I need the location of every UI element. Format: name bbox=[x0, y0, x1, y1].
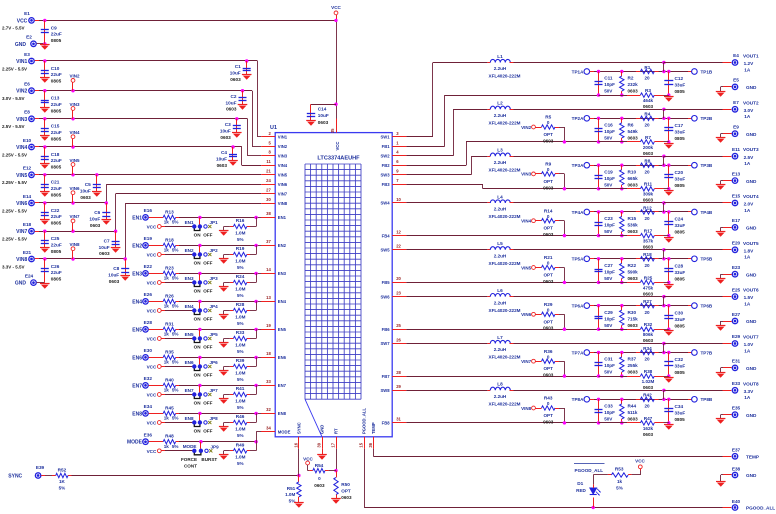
svg-text:R30: R30 bbox=[628, 310, 637, 315]
svg-text:RT: RT bbox=[334, 428, 339, 434]
svg-text:1k: 1k bbox=[164, 276, 170, 281]
svg-text:0603: 0603 bbox=[643, 385, 654, 390]
capacitor C9 22uF 0805 bbox=[40, 20, 62, 49]
svg-text:L2: L2 bbox=[497, 101, 503, 106]
svg-text:23: 23 bbox=[396, 290, 401, 295]
svg-text:OFF: OFF bbox=[203, 344, 212, 349]
svg-text:TP7A: TP7A bbox=[572, 350, 584, 355]
wire MODE line bbox=[149, 432, 262, 444]
svg-text:E17: E17 bbox=[732, 218, 741, 223]
svg-text:GND: GND bbox=[746, 132, 757, 137]
svg-text:5%: 5% bbox=[59, 486, 66, 491]
svg-text:1.0V: 1.0V bbox=[744, 342, 755, 347]
wire VOUT1 drop bbox=[663, 63, 665, 72]
resistor R9 0 OPT 0603 bbox=[535, 162, 566, 191]
svg-text:E1: E1 bbox=[24, 11, 30, 16]
svg-text:L6: L6 bbox=[497, 288, 503, 293]
wire EN1 line bbox=[149, 216, 262, 219]
svg-text:1k: 1k bbox=[164, 360, 170, 365]
test point TP2B bbox=[688, 116, 713, 122]
svg-text:R10: R10 bbox=[628, 169, 637, 174]
svg-text:E30: E30 bbox=[144, 348, 153, 353]
svg-text:TP4B: TP4B bbox=[701, 210, 713, 215]
svg-text:C23: C23 bbox=[604, 216, 613, 221]
net flag VCC for EN2 bbox=[147, 253, 193, 258]
svg-text:1.0M: 1.0M bbox=[235, 258, 245, 263]
resistor R52 1K 5% bbox=[56, 468, 68, 491]
svg-text:0603: 0603 bbox=[628, 89, 639, 94]
svg-text:C7: C7 bbox=[104, 238, 110, 243]
resistor R21 0 OPT 0603 bbox=[535, 255, 566, 284]
svg-text:1.0M: 1.0M bbox=[235, 455, 245, 460]
wire EN1 pulldown bbox=[224, 217, 257, 226]
resistor R12 20 bbox=[636, 205, 659, 221]
svg-text:VCC: VCC bbox=[331, 5, 341, 10]
svg-text:1.0M: 1.0M bbox=[235, 370, 245, 375]
svg-text:E26: E26 bbox=[144, 292, 153, 297]
svg-text:0603: 0603 bbox=[628, 136, 639, 141]
svg-text:0: 0 bbox=[547, 307, 550, 312]
svg-text:VIN2: VIN2 bbox=[278, 144, 288, 149]
jumper JP4 EN4 bbox=[185, 301, 219, 321]
svg-text:VCC: VCC bbox=[635, 458, 645, 463]
net flag VCC for EN5 bbox=[147, 337, 193, 342]
capacitor C25 22uF 0805 bbox=[40, 231, 62, 254]
svg-text:10uF: 10uF bbox=[226, 100, 237, 105]
svg-text:GND: GND bbox=[746, 272, 757, 277]
svg-text:VOUT8: VOUT8 bbox=[743, 381, 759, 386]
svg-text:20: 20 bbox=[644, 216, 650, 221]
capacitor C7 10uF 0603 bbox=[99, 231, 121, 256]
svg-text:1A: 1A bbox=[744, 114, 751, 119]
svg-text:VIN1: VIN1 bbox=[278, 135, 288, 140]
wire VOUT3 line bbox=[514, 155, 732, 158]
svg-text:VCC: VCC bbox=[147, 393, 157, 398]
svg-text:3.0V: 3.0V bbox=[744, 108, 755, 113]
net flag VIN2 on rail bbox=[69, 74, 80, 91]
svg-text:OFF: OFF bbox=[203, 232, 212, 237]
resistor R33 1.0M 5% bbox=[233, 330, 246, 354]
ground for R51 bbox=[294, 503, 304, 508]
test point TP7A bbox=[572, 350, 594, 356]
net label PGOOD_ALL with overline bbox=[574, 464, 605, 473]
net flag VIN3 channel 3 bbox=[521, 172, 535, 177]
svg-text:C4: C4 bbox=[221, 150, 227, 155]
pin 38 EN1 stub bbox=[262, 211, 276, 217]
svg-text:EN3: EN3 bbox=[185, 276, 194, 281]
svg-text:0805: 0805 bbox=[675, 277, 686, 282]
svg-text:PGOOD_ALL: PGOOD_ALL bbox=[575, 468, 604, 473]
wire VOUT5 drop bbox=[663, 250, 665, 259]
svg-text:1.02M: 1.02M bbox=[642, 379, 655, 384]
svg-text:TP3B: TP3B bbox=[701, 163, 713, 168]
svg-text:CONT: CONT bbox=[184, 463, 197, 468]
svg-text:20: 20 bbox=[644, 123, 650, 128]
svg-text:XFL4020-222M: XFL4020-222M bbox=[489, 74, 521, 79]
svg-text:0603: 0603 bbox=[217, 163, 228, 168]
svg-text:0603: 0603 bbox=[314, 483, 325, 488]
net flag VCC for EN3 bbox=[147, 281, 193, 286]
svg-text:2.2uH: 2.2uH bbox=[494, 300, 507, 305]
svg-text:0: 0 bbox=[547, 354, 550, 359]
svg-text:37: 37 bbox=[266, 239, 271, 244]
resistor R23 1k 5% bbox=[163, 265, 178, 280]
svg-text:536k: 536k bbox=[628, 223, 639, 228]
svg-text:TP5A: TP5A bbox=[572, 257, 584, 262]
svg-text:475k: 475k bbox=[643, 285, 654, 290]
svg-text:JP7: JP7 bbox=[210, 388, 219, 393]
net flag VIN8 on rail bbox=[69, 242, 80, 259]
svg-text:VCC: VCC bbox=[17, 18, 28, 24]
svg-text:10uF: 10uF bbox=[220, 128, 231, 133]
node E18 VIN7 input turret bbox=[2, 222, 39, 242]
test point TP7B bbox=[688, 350, 713, 356]
svg-text:0603: 0603 bbox=[80, 195, 91, 200]
wire EN4 line bbox=[149, 300, 262, 303]
svg-text:464k: 464k bbox=[643, 98, 654, 103]
svg-text:PGOOD_ALL: PGOOD_ALL bbox=[746, 506, 775, 511]
svg-text:10uF: 10uF bbox=[216, 157, 227, 162]
svg-text:0805: 0805 bbox=[675, 323, 686, 328]
svg-text:XFL4020-222M: XFL4020-222M bbox=[489, 261, 521, 266]
svg-text:E22: E22 bbox=[144, 264, 153, 269]
svg-text:27: 27 bbox=[266, 188, 271, 193]
svg-text:50V: 50V bbox=[604, 323, 613, 328]
wire VOUT6 line bbox=[514, 295, 732, 298]
resistor R16 1.0M 5% bbox=[233, 218, 246, 242]
capacitor C24 33uF 0805 bbox=[664, 212, 685, 243]
svg-text:590k: 590k bbox=[628, 270, 639, 275]
svg-text:EN3: EN3 bbox=[132, 271, 142, 277]
svg-text:EN2: EN2 bbox=[132, 243, 142, 249]
jumper JP1 EN1 bbox=[185, 217, 219, 237]
svg-text:E18: E18 bbox=[23, 222, 32, 227]
net flag VIN7 channel 7 bbox=[521, 359, 535, 364]
svg-text:GND: GND bbox=[746, 179, 757, 184]
svg-text:E5: E5 bbox=[733, 78, 739, 83]
svg-text:C24: C24 bbox=[675, 217, 684, 222]
svg-text:E3: E3 bbox=[24, 52, 30, 57]
svg-text:511k: 511k bbox=[628, 410, 638, 415]
svg-text:5%: 5% bbox=[172, 220, 179, 225]
resistor R11 309k 0603 bbox=[599, 182, 669, 203]
svg-text:TP6A: TP6A bbox=[572, 303, 584, 308]
svg-text:R28: R28 bbox=[236, 302, 245, 307]
capacitor C32 33uF 0805 bbox=[664, 353, 685, 383]
svg-text:VIN7: VIN7 bbox=[278, 191, 288, 196]
svg-text:C21: C21 bbox=[51, 180, 60, 185]
svg-text:E38: E38 bbox=[732, 466, 741, 471]
test point TP5A bbox=[572, 256, 594, 262]
resistor R30 715k 0603 bbox=[620, 306, 639, 331]
svg-text:EN2: EN2 bbox=[278, 243, 287, 248]
svg-text:19: 19 bbox=[266, 323, 271, 328]
svg-text:R52: R52 bbox=[58, 468, 67, 473]
svg-text:OPT: OPT bbox=[341, 489, 351, 494]
svg-text:VIN5: VIN5 bbox=[278, 173, 288, 178]
pin 14 EN3 stub bbox=[262, 267, 276, 273]
resistor R22 590k 0603 bbox=[620, 259, 639, 284]
svg-text:0603: 0603 bbox=[628, 182, 639, 187]
wire divider mid line ch4 bbox=[594, 210, 691, 213]
svg-text:E8: E8 bbox=[24, 110, 30, 115]
U1 bottom pin stubs and names bbox=[294, 408, 376, 449]
svg-text:1.0M: 1.0M bbox=[235, 342, 245, 347]
net flag VIN6 on rail bbox=[69, 186, 80, 203]
svg-text:OFF: OFF bbox=[203, 316, 212, 321]
svg-text:C29: C29 bbox=[604, 310, 613, 315]
svg-text:VIN3: VIN3 bbox=[16, 117, 27, 123]
net flag VCC for EN7 bbox=[147, 393, 193, 398]
svg-text:E16: E16 bbox=[144, 208, 153, 213]
svg-text:SW8: SW8 bbox=[381, 388, 391, 393]
svg-text:5%: 5% bbox=[237, 265, 244, 270]
svg-text:VIN8: VIN8 bbox=[278, 201, 288, 206]
svg-text:R18: R18 bbox=[165, 237, 174, 242]
resistor R29 0 OPT 0603 bbox=[535, 302, 566, 331]
svg-text:38: 38 bbox=[266, 211, 271, 216]
node E10 VIN4 input turret bbox=[2, 138, 39, 158]
svg-text:L7: L7 bbox=[497, 335, 503, 340]
wire TEMP line bbox=[373, 449, 731, 457]
svg-text:R8: R8 bbox=[644, 159, 650, 164]
svg-text:R16: R16 bbox=[236, 218, 245, 223]
svg-text:BURST: BURST bbox=[201, 457, 217, 462]
svg-text:SW3: SW3 bbox=[381, 173, 391, 178]
svg-text:0603: 0603 bbox=[628, 276, 639, 281]
svg-text:5%: 5% bbox=[237, 237, 244, 242]
svg-text:2.2uH: 2.2uH bbox=[494, 347, 507, 352]
node E36 MODE turret bbox=[127, 432, 152, 445]
svg-text:20: 20 bbox=[644, 310, 650, 315]
svg-text:SW4: SW4 bbox=[381, 201, 391, 206]
svg-text:0805: 0805 bbox=[51, 79, 62, 84]
svg-text:EN6: EN6 bbox=[185, 360, 194, 365]
ground for JP4 bbox=[219, 311, 229, 320]
svg-text:E29: E29 bbox=[732, 334, 741, 339]
jumper JP2 EN2 bbox=[185, 245, 219, 265]
svg-text:VIN3: VIN3 bbox=[278, 154, 288, 159]
svg-text:5%: 5% bbox=[237, 349, 244, 354]
svg-text:D1: D1 bbox=[577, 481, 583, 486]
svg-text:10pF: 10pF bbox=[604, 223, 615, 228]
svg-text:VIN4: VIN4 bbox=[69, 130, 80, 135]
svg-text:C13: C13 bbox=[51, 96, 60, 101]
svg-text:E9: E9 bbox=[733, 125, 739, 130]
svg-text:0805: 0805 bbox=[675, 230, 686, 235]
svg-text:VOUT1: VOUT1 bbox=[743, 54, 759, 59]
svg-text:0805: 0805 bbox=[675, 89, 686, 94]
svg-text:R4: R4 bbox=[644, 112, 650, 117]
svg-text:10uF: 10uF bbox=[108, 273, 119, 278]
svg-text:2.7V - 5.5V: 2.7V - 5.5V bbox=[2, 26, 25, 31]
wire EN5 line bbox=[149, 328, 262, 331]
ground for JP5 bbox=[219, 339, 229, 348]
node E4 VOUT1 turret bbox=[732, 53, 759, 72]
pin 19 EN5 stub bbox=[262, 323, 276, 329]
wire MODE pulldown bbox=[224, 442, 257, 451]
svg-text:C25: C25 bbox=[51, 236, 60, 241]
svg-text:C12: C12 bbox=[675, 76, 684, 81]
svg-text:0603: 0603 bbox=[643, 151, 654, 156]
svg-text:31: 31 bbox=[396, 417, 401, 422]
svg-text:E35: E35 bbox=[732, 406, 741, 411]
svg-text:24: 24 bbox=[266, 178, 271, 183]
wire VOUT5 line bbox=[514, 248, 732, 251]
svg-text:E40: E40 bbox=[732, 499, 741, 504]
wire SW3 to L3 bbox=[406, 156, 487, 175]
svg-text:EN4: EN4 bbox=[132, 299, 142, 305]
inductor L3 2.2uH XFL4020-222M bbox=[487, 148, 520, 173]
svg-text:VIN8: VIN8 bbox=[521, 406, 532, 411]
svg-text:E25: E25 bbox=[732, 287, 741, 292]
wire FB4 line bbox=[406, 235, 598, 237]
ground for U1 GND pin bbox=[317, 449, 327, 460]
resistor R38 1.02M 0603 bbox=[599, 369, 669, 390]
svg-text:R25: R25 bbox=[644, 275, 653, 280]
resistor R44 511k 0603 bbox=[620, 399, 639, 424]
test point TP6B bbox=[688, 303, 713, 309]
svg-text:TP8A: TP8A bbox=[572, 397, 584, 402]
svg-text:R54: R54 bbox=[315, 463, 324, 468]
svg-text:EN1: EN1 bbox=[132, 215, 142, 221]
wire SW6 to L6 bbox=[406, 296, 487, 298]
svg-text:VIN3: VIN3 bbox=[69, 102, 80, 107]
svg-text:VIN6: VIN6 bbox=[16, 201, 27, 207]
svg-text:EN1: EN1 bbox=[278, 215, 287, 220]
svg-text:33uF: 33uF bbox=[675, 317, 686, 322]
svg-text:22uF: 22uF bbox=[51, 158, 62, 163]
svg-text:33uF: 33uF bbox=[675, 130, 686, 135]
svg-text:1.5V: 1.5V bbox=[744, 295, 755, 300]
node E19 EN2 turret bbox=[132, 236, 152, 249]
svg-text:EN7: EN7 bbox=[185, 388, 194, 393]
svg-text:E28: E28 bbox=[144, 320, 153, 325]
svg-text:EN4: EN4 bbox=[278, 299, 287, 304]
wire SW2 to L2 bbox=[406, 109, 487, 156]
wire divider mid line ch1 bbox=[594, 70, 691, 73]
resistor R32 806k 0603 bbox=[599, 322, 669, 343]
net flag VCC for EN6 bbox=[147, 365, 193, 370]
node E22 EN3 turret bbox=[132, 264, 152, 277]
svg-text:SYNC: SYNC bbox=[297, 422, 302, 434]
wire VCC rail bbox=[39, 19, 336, 22]
svg-text:ON: ON bbox=[194, 288, 202, 293]
wire D1 anode to R53 bbox=[593, 469, 640, 475]
svg-text:GND: GND bbox=[746, 413, 757, 418]
wire VOUT8 drop bbox=[663, 390, 665, 399]
svg-text:VIN6: VIN6 bbox=[278, 182, 288, 187]
svg-text:5%: 5% bbox=[172, 416, 179, 421]
svg-text:0805: 0805 bbox=[51, 192, 62, 197]
svg-text:EN5: EN5 bbox=[278, 327, 287, 332]
svg-text:0805: 0805 bbox=[51, 108, 62, 113]
svg-text:VOUT2: VOUT2 bbox=[743, 100, 759, 105]
svg-text:VIN8: VIN8 bbox=[69, 242, 80, 247]
svg-text:39: 39 bbox=[317, 442, 322, 447]
svg-text:VIN5: VIN5 bbox=[69, 158, 80, 163]
svg-text:R32: R32 bbox=[644, 322, 653, 327]
test point TP5B bbox=[688, 256, 713, 262]
svg-text:0805: 0805 bbox=[51, 221, 62, 226]
node E32 EN7 turret bbox=[132, 376, 152, 389]
node E35 GND turret ch8 bbox=[716, 406, 757, 424]
svg-text:L4: L4 bbox=[497, 194, 503, 199]
svg-text:E2: E2 bbox=[26, 35, 32, 40]
svg-text:SW1: SW1 bbox=[381, 135, 391, 140]
node E30 EN6 turret bbox=[132, 348, 152, 361]
svg-text:R13: R13 bbox=[165, 209, 174, 214]
svg-text:FB2: FB2 bbox=[382, 163, 391, 168]
svg-text:FB1: FB1 bbox=[382, 144, 391, 149]
node E34 EN8 turret bbox=[132, 404, 152, 417]
svg-text:E37: E37 bbox=[732, 448, 741, 453]
svg-text:SW5: SW5 bbox=[381, 248, 391, 253]
svg-text:OPT: OPT bbox=[543, 273, 553, 278]
wire SW1 to L1 bbox=[406, 63, 487, 138]
svg-text:50V: 50V bbox=[604, 136, 613, 141]
ground for JP8 bbox=[219, 423, 229, 432]
svg-text:LTC3374AEUHF: LTC3374AEUHF bbox=[317, 155, 360, 161]
resistor R15 536k 0603 bbox=[620, 212, 639, 237]
svg-text:R45: R45 bbox=[165, 405, 174, 410]
capacitor C23 10pF 50V bbox=[595, 212, 616, 237]
svg-text:3.3V - 5.5V: 3.3V - 5.5V bbox=[2, 264, 25, 269]
test point TP8A bbox=[572, 397, 594, 403]
capacitor C4 10uF 0603 bbox=[216, 147, 238, 168]
svg-text:FB7: FB7 bbox=[382, 374, 391, 379]
svg-text:VIN2: VIN2 bbox=[521, 125, 532, 130]
svg-text:E11: E11 bbox=[732, 147, 740, 152]
test point TP2A bbox=[572, 116, 594, 122]
ground for JP9 bbox=[219, 451, 229, 460]
node E37 TEMP turret bbox=[732, 448, 759, 460]
svg-text:L3: L3 bbox=[497, 148, 503, 153]
inductor L8 2.2uH XFL4020-222M bbox=[487, 382, 520, 407]
svg-text:EN7: EN7 bbox=[132, 383, 142, 389]
svg-text:C20: C20 bbox=[675, 170, 684, 175]
resistor R31 1k 5% bbox=[163, 321, 178, 336]
svg-text:ON: ON bbox=[194, 232, 202, 237]
node E11 VOUT3 turret bbox=[732, 147, 759, 166]
svg-text:1A: 1A bbox=[744, 208, 751, 213]
wire VIN8 rail bbox=[39, 203, 261, 260]
svg-text:E4: E4 bbox=[733, 53, 739, 58]
svg-text:OFF: OFF bbox=[203, 400, 212, 405]
resistor R14 0 OPT 0603 bbox=[535, 208, 566, 237]
net flag VCC for MODE bbox=[147, 449, 193, 454]
svg-text:R43: R43 bbox=[544, 396, 553, 401]
svg-text:0603: 0603 bbox=[543, 185, 554, 190]
svg-text:OPT: OPT bbox=[543, 319, 553, 324]
svg-text:E10: E10 bbox=[23, 138, 32, 143]
svg-text:10uF: 10uF bbox=[318, 113, 329, 118]
svg-text:2.2uH: 2.2uH bbox=[494, 394, 507, 399]
svg-text:22uF: 22uF bbox=[51, 242, 62, 247]
svg-text:1K: 1K bbox=[59, 479, 66, 484]
svg-text:33: 33 bbox=[266, 379, 271, 384]
svg-text:R17: R17 bbox=[644, 229, 653, 234]
svg-text:1.2V: 1.2V bbox=[744, 61, 755, 66]
svg-text:17: 17 bbox=[331, 442, 336, 447]
capacitor C27 10pF 50V bbox=[595, 259, 616, 284]
svg-text:TEMP: TEMP bbox=[746, 454, 759, 459]
svg-text:EN1: EN1 bbox=[185, 220, 194, 225]
svg-text:VIN1: VIN1 bbox=[16, 59, 27, 65]
svg-text:FB4: FB4 bbox=[382, 233, 391, 238]
svg-text:L8: L8 bbox=[497, 382, 503, 387]
svg-text:10: 10 bbox=[396, 197, 401, 202]
